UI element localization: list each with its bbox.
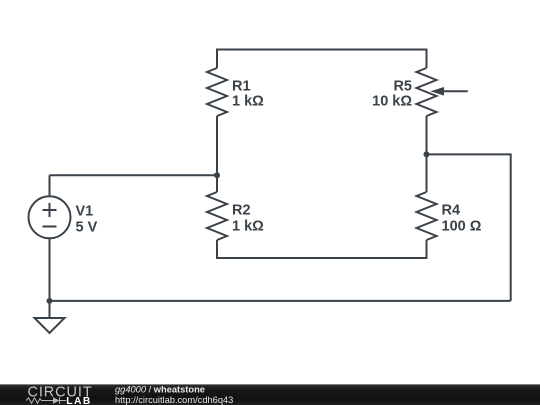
svg-text:R5: R5 bbox=[393, 79, 412, 95]
wire right net bbox=[50, 153, 511, 301]
node B junction bbox=[47, 298, 53, 304]
resistor R5 (potentiometer) bbox=[417, 49, 437, 155]
svg-text:http://circuitlab.com/cdh6q43: http://circuitlab.com/cdh6q43 bbox=[115, 395, 233, 405]
logo zigzag diode bbox=[26, 397, 66, 403]
svg-text:R4: R4 bbox=[442, 203, 461, 219]
svg-text:5 V: 5 V bbox=[76, 220, 98, 236]
svg-text:1 kΩ: 1 kΩ bbox=[232, 219, 264, 235]
node C junction bbox=[424, 151, 430, 157]
svg-text:V1: V1 bbox=[76, 204, 94, 220]
svg-text:LAB: LAB bbox=[66, 396, 91, 405]
node A junction bbox=[214, 172, 220, 178]
resistor R2 bbox=[207, 175, 227, 258]
svg-text:gg4000 / wheatstone: gg4000 / wheatstone bbox=[115, 385, 205, 395]
wire top net from R1 to R5 bbox=[216, 49, 428, 51]
R5 wiper arrow bbox=[431, 87, 468, 96]
svg-text:10 kΩ: 10 kΩ bbox=[372, 94, 412, 110]
svg-text:100 Ω: 100 Ω bbox=[442, 219, 482, 235]
svg-text:1 kΩ: 1 kΩ bbox=[232, 94, 264, 110]
footer bar bbox=[0, 384, 540, 405]
svg-text:R2: R2 bbox=[232, 203, 251, 219]
ground bbox=[35, 301, 65, 333]
wire bottom mid net bbox=[216, 257, 428, 259]
resistor R4 bbox=[417, 154, 437, 258]
voltage source V1 bbox=[29, 175, 71, 301]
wire node A horizontal bbox=[50, 174, 218, 176]
svg-text:R1: R1 bbox=[232, 79, 251, 95]
resistor R1 bbox=[207, 49, 227, 176]
